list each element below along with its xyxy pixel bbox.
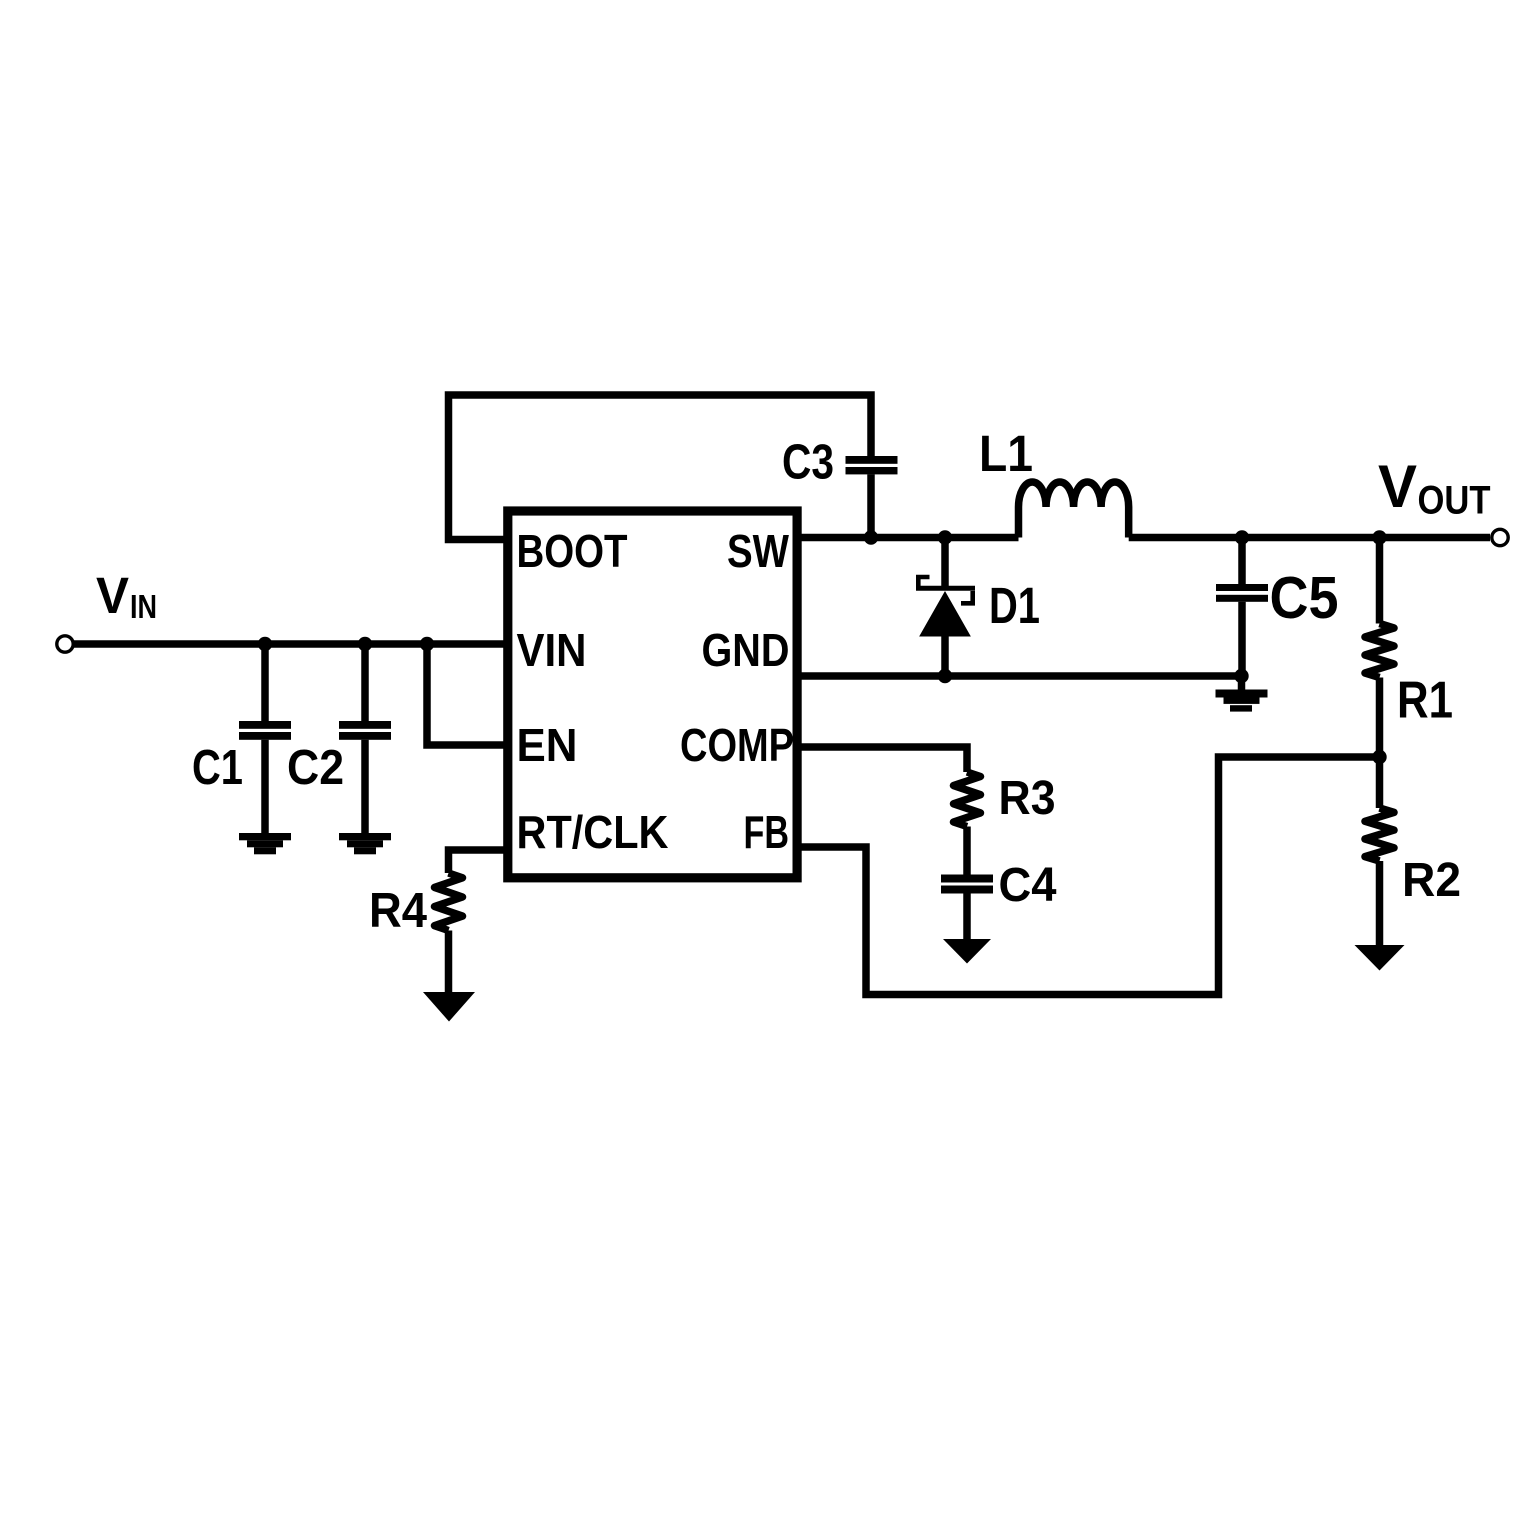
svg-text:FB: FB	[744, 806, 790, 858]
node junction C5	[1235, 530, 1249, 544]
node junction D1/GND	[938, 669, 952, 683]
svg-text:COMP: COMP	[680, 719, 794, 771]
svg-text:C4: C4	[999, 859, 1057, 912]
svg-text:R2: R2	[1402, 854, 1461, 907]
svg-text:RT/CLK: RT/CLK	[517, 806, 669, 858]
net label VOUT	[1378, 453, 1491, 523]
resistor R2	[1365, 757, 1394, 945]
svg-text:V: V	[1378, 453, 1417, 520]
svg-text:SW: SW	[727, 525, 789, 577]
svg-text:R3: R3	[999, 772, 1056, 825]
svg-text:L1: L1	[979, 425, 1033, 482]
wire SW node	[801, 534, 1019, 542]
svg-text:C3: C3	[782, 436, 834, 490]
ground R4 (arrow)	[423, 992, 475, 1022]
capacitor C3	[846, 456, 898, 538]
ground C4 (arrow)	[943, 939, 991, 964]
svg-text:D1: D1	[989, 577, 1040, 634]
svg-text:IN: IN	[130, 588, 157, 625]
ground GND rail	[1216, 676, 1268, 712]
resistor R1	[1365, 538, 1394, 758]
ground C1	[239, 833, 291, 854]
svg-text:C2: C2	[287, 741, 344, 795]
svg-text:BOOT: BOOT	[517, 525, 628, 577]
capacitor C1	[239, 644, 291, 834]
node junction C2	[358, 637, 372, 651]
node junction C1	[258, 637, 272, 651]
svg-text:VIN: VIN	[517, 624, 587, 676]
node VOUT output terminal	[1492, 529, 1508, 545]
node junction EN branch	[420, 637, 434, 651]
diode D1 (schottky)	[916, 538, 975, 677]
svg-text:R1: R1	[1397, 672, 1453, 730]
node junction D1/SW	[938, 530, 952, 544]
svg-text:C1: C1	[192, 741, 243, 795]
capacitor C4	[941, 875, 993, 940]
op-amp U1 (regulator IC body)	[508, 511, 797, 878]
svg-text:OUT: OUT	[1418, 479, 1491, 523]
svg-text:GND: GND	[702, 624, 790, 676]
node junction R1/R2/FB	[1372, 750, 1386, 764]
svg-text:EN: EN	[517, 719, 578, 771]
capacitor C2	[339, 644, 391, 834]
ground R2 (arrow)	[1355, 945, 1405, 971]
svg-text:R4: R4	[369, 884, 427, 938]
capacitor C5	[1216, 538, 1268, 677]
node VIN input terminal	[57, 636, 73, 652]
wire EN branch	[427, 644, 504, 745]
resistor R3	[954, 772, 981, 875]
inductor L1	[1019, 482, 1129, 538]
svg-text:V: V	[96, 567, 129, 624]
wire output rail	[1129, 534, 1490, 542]
wire BOOT loop	[449, 395, 872, 540]
wire VIN input rail	[74, 640, 504, 648]
wire RT/CLK net	[449, 850, 505, 873]
ground C2	[339, 833, 391, 854]
node junction C3/SW	[864, 530, 878, 544]
wire FB net	[801, 757, 1380, 995]
wire COMP net	[801, 747, 967, 772]
svg-text:C5: C5	[1270, 565, 1339, 631]
net label VIN	[96, 567, 157, 625]
node junction R1	[1372, 530, 1386, 544]
wire GND rail	[801, 672, 1242, 680]
node junction C5/GND	[1234, 669, 1248, 683]
resistor R4	[435, 873, 463, 992]
